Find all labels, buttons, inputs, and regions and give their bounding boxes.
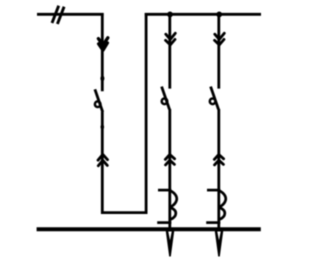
circuit breaker QF1 blade [95,89,103,112]
wire: feeder 1 lower vertical [168,109,171,228]
circuit breaker QF2 loop [162,99,168,105]
current transformer TA2 lower winding bump [220,208,225,220]
drawout contact chevrons (up) Q2 bottom [165,155,174,165]
drawout contact chevrons (up) Q1 bottom [98,154,108,165]
wire: U-turn bottom horizontal [101,211,147,214]
circuit breaker QF2 blade [162,87,170,110]
wire: incoming line top-left [37,13,104,16]
current transformer TA1 upper winding bump [171,191,177,207]
wire: return riser vertical [145,13,148,214]
bottom busbar [37,227,261,231]
circuit breaker QF3 loop [210,99,216,105]
junction node at feeder 2 tap [216,12,222,18]
wire: feeder 1 upper vertical [168,13,171,89]
current transformer TA1 lower winding bump [171,208,176,220]
current transformer TA2 bottom tick [206,221,220,224]
circuit breaker QF1 loop [95,101,101,107]
conductor-count double slash on incoming line [52,6,64,24]
wire: left branch upper vertical [101,13,104,91]
current transformer TA1 bottom tick [157,221,171,224]
drawout contact chevrons (up) Q3 bottom [214,155,223,165]
current transformer TA2 top tick [207,189,220,192]
circuit breaker QF3 blade [211,87,219,110]
drawout contact chevrons (down) Q2 top [166,33,176,45]
current transformer TA1 top tick [158,189,171,192]
feeder 2 outgoing arrow below bus [215,231,224,257]
wire: left branch lower vertical [101,112,104,214]
scan blob on left vertical lower [101,125,105,130]
wire: top bus right section [145,13,261,16]
wire: feeder 2 upper vertical [217,13,220,89]
junction node at feeder 1 tap [167,12,173,18]
drawout contact chevrons (down) Q1 top [98,38,107,50]
current transformer TA2 upper winding bump [220,191,226,207]
wire: feeder 2 lower vertical [217,109,220,228]
drawout contact chevrons (down) Q3 top [215,33,225,45]
feeder 1 outgoing arrow below bus [166,231,175,257]
scan blob on left vertical [100,76,104,82]
